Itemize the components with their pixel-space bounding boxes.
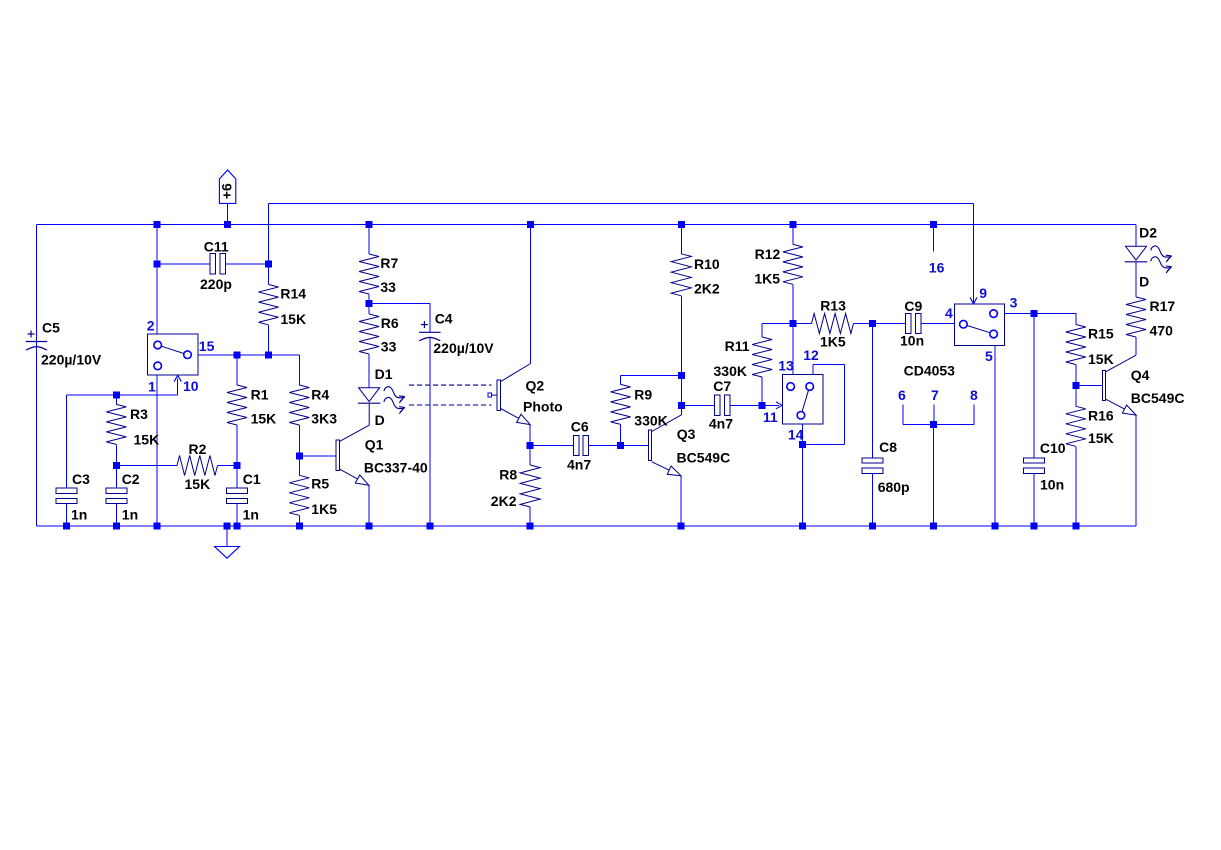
svg-text:15K: 15K	[185, 476, 211, 492]
svg-text:330K: 330K	[634, 412, 667, 428]
resistor R10 2K2	[680, 224, 682, 253]
svg-text:10n: 10n	[1040, 476, 1064, 492]
resistor R1 15K	[236, 355, 238, 385]
power symbol +6	[219, 170, 235, 203]
svg-text:220p: 220p	[200, 276, 232, 292]
wire pin10 branch horizontal	[67, 394, 178, 396]
svg-text:+6: +6	[219, 183, 235, 199]
optical coupling dashed lines	[409, 385, 492, 405]
wire Q2 emitter to R8 node	[529, 425, 531, 446]
svg-text:Photo: Photo	[523, 398, 563, 414]
svg-text:R1: R1	[251, 387, 269, 403]
junction C3 on ground bus	[63, 522, 70, 529]
svg-text:15K: 15K	[1088, 351, 1114, 367]
svg-text:R15: R15	[1088, 325, 1114, 341]
svg-text:BC337-40: BC337-40	[364, 459, 428, 475]
junction C7 right / R11 bottom	[759, 402, 766, 409]
analog switch U1a (pins 2/1/15/10)	[148, 334, 198, 375]
resistor R15 15K	[1075, 313, 1077, 324]
svg-text:330K: 330K	[714, 363, 747, 379]
svg-text:Q1: Q1	[365, 436, 384, 452]
svg-text:15K: 15K	[251, 411, 277, 427]
junction pins 6-7-8 tie	[930, 421, 937, 428]
capacitor C4 220u/10V	[419, 321, 441, 341]
junction R16 on ground bus	[1072, 522, 1079, 529]
wire C4 to ground bus	[429, 337, 431, 526]
wire Q3 emitter to ground bus	[680, 476, 682, 526]
light emission arrows from D2	[1151, 246, 1172, 262]
junction ground stem on bus	[224, 522, 231, 529]
transistor Q4 BC549C	[1076, 385, 1103, 387]
junction Q2 emitter / R8 / C6 node	[527, 442, 534, 449]
wire pin1 down to ground bus	[156, 375, 158, 526]
junction C4 on ground bus	[426, 522, 433, 529]
svg-text:D1: D1	[375, 366, 393, 382]
svg-text:2K2: 2K2	[694, 281, 720, 297]
capacitor C2 1n	[115, 466, 117, 489]
svg-text:Q4: Q4	[1131, 367, 1150, 383]
junction C7 wire on collector column	[678, 402, 685, 409]
wire pin2 into switch	[156, 264, 158, 334]
pin 16 stub	[933, 224, 935, 251]
wire pin3 row	[1004, 312, 1076, 314]
svg-text:C10: C10	[1040, 440, 1066, 456]
junction C10 on ground bus	[1031, 522, 1038, 529]
capacitor C3 1n	[66, 395, 68, 488]
svg-text:R17: R17	[1150, 298, 1176, 314]
junction R7 on top bus	[366, 221, 373, 228]
svg-text:3K3: 3K3	[311, 411, 337, 427]
wire +6 to top bus	[227, 203, 229, 224]
svg-text:1K5: 1K5	[311, 501, 337, 517]
svg-text:D: D	[1139, 273, 1149, 289]
svg-text:BC549C: BC549C	[1131, 390, 1185, 406]
wire pin12 loop to pin14 node	[812, 364, 814, 374]
svg-text:1: 1	[148, 379, 156, 395]
svg-text:1K5: 1K5	[820, 334, 846, 350]
svg-text:16: 16	[929, 260, 945, 276]
transistor Q3 BC549C	[621, 445, 649, 447]
svg-text:C6: C6	[571, 419, 589, 435]
svg-text:4n7: 4n7	[709, 416, 733, 432]
svg-text:BC549C: BC549C	[677, 449, 731, 465]
svg-text:C4: C4	[435, 311, 453, 327]
junction C6 right / R9 bottom	[617, 442, 624, 449]
resistor R7 33	[368, 224, 370, 254]
capacitor C1 1n	[236, 466, 238, 489]
svg-text:C11: C11	[204, 238, 229, 254]
resistor R11 330K	[761, 324, 763, 338]
wire mux pin2 column from bus	[156, 224, 158, 264]
junction Q3 emitter on ground bus	[677, 522, 684, 529]
junction R10 on top bus	[678, 221, 685, 228]
svg-text:R8: R8	[499, 466, 517, 482]
wire feedback drop to C11/R14 node	[268, 203, 270, 264]
svg-text:220µ/10V: 220µ/10V	[433, 340, 494, 356]
svg-text:R7: R7	[380, 255, 398, 271]
junction pin14 on ground bus	[799, 522, 806, 529]
resistor R9 330K	[620, 376, 622, 385]
light emission arrows from D1	[384, 387, 405, 403]
junction R3 bottom / C2 top	[113, 462, 120, 469]
wire Q4 collector up to R17	[1135, 337, 1137, 355]
junction R12 bottom / R13 left / pin13	[789, 320, 796, 327]
svg-text:R10: R10	[694, 256, 720, 272]
svg-text:9: 9	[979, 285, 987, 301]
wire Q3 collector up to R10	[680, 376, 682, 415]
arrow into pin 9	[970, 297, 977, 303]
svg-text:C9: C9	[904, 298, 922, 314]
junction +6 on top bus	[224, 221, 231, 228]
svg-text:R14: R14	[280, 286, 306, 302]
svg-text:R2: R2	[189, 441, 207, 457]
junction R2 right / C1 top	[234, 462, 241, 469]
junction 6-7-8 on ground bus	[930, 522, 937, 529]
svg-text:C7: C7	[713, 378, 731, 394]
svg-text:1n: 1n	[243, 506, 259, 522]
svg-text:1n: 1n	[122, 506, 138, 522]
junction pin2 column on top bus	[153, 221, 160, 228]
svg-text:33: 33	[380, 279, 396, 295]
junction pin15/R14 bottom	[265, 352, 272, 359]
svg-text:R3: R3	[130, 406, 148, 422]
junction pin3 / C10 top	[1031, 310, 1038, 317]
wire R7/R6 node to C4	[369, 302, 430, 304]
resistor R13 1K5	[793, 323, 812, 325]
wire Q1 emitter to ground bus	[368, 485, 370, 526]
svg-text:C5: C5	[42, 320, 60, 336]
junction C2 on ground bus	[113, 522, 120, 529]
wire pin13 up to R12/R13 node	[792, 324, 794, 375]
junction Q1 emitter on ground bus	[365, 522, 372, 529]
svg-text:Q3: Q3	[677, 426, 696, 442]
wire feedback vertical to pin 9	[973, 203, 975, 304]
capacitor C6 4n7	[530, 445, 573, 447]
junction C8 on ground bus	[869, 522, 876, 529]
svg-text:1K5: 1K5	[754, 271, 780, 287]
wire left bus vertical (C5 branch)	[36, 224, 38, 526]
wire Q4 emitter to ground bus	[1135, 415, 1137, 526]
svg-text:2: 2	[147, 318, 155, 334]
svg-text:R9: R9	[634, 386, 652, 402]
wire Q2 collector to top bus	[530, 224, 532, 363]
resistor R14 15K	[268, 264, 270, 285]
junction Q2 collector on top bus	[527, 221, 534, 228]
svg-text:10: 10	[183, 378, 199, 394]
junction R15 bottom / Q4 base node	[1072, 382, 1079, 389]
junction pin15/R1 top	[234, 352, 241, 359]
svg-text:5: 5	[985, 348, 993, 364]
junction C11 left	[153, 260, 160, 267]
svg-text:8: 8	[970, 387, 978, 403]
svg-text:R16: R16	[1088, 407, 1114, 423]
capacitor C11 220p	[157, 263, 210, 265]
junction pin5 on ground bus	[992, 522, 999, 529]
wire bottom ground bus	[37, 525, 1137, 527]
svg-text:33: 33	[381, 338, 397, 354]
svg-text:2K2: 2K2	[491, 493, 517, 509]
analog switch U1b (pins 13/12/11/14)	[783, 375, 823, 424]
svg-text:4: 4	[945, 305, 953, 321]
svg-text:13: 13	[778, 357, 794, 373]
svg-text:R5: R5	[311, 475, 329, 491]
svg-text:R6: R6	[381, 315, 399, 331]
svg-text:15K: 15K	[134, 431, 160, 447]
junction pin12/pin14 tie	[799, 441, 806, 448]
capacitor C10 10n	[1033, 313, 1035, 458]
svg-text:4n7: 4n7	[567, 456, 591, 472]
ground symbol	[226, 526, 228, 547]
junction R13 right / C8 / C9 node	[869, 320, 876, 327]
svg-text:6: 6	[898, 387, 906, 403]
resistor R12 1K5	[792, 224, 794, 244]
svg-text:15: 15	[199, 338, 215, 354]
svg-text:Q2: Q2	[526, 377, 545, 393]
wire top supply bus	[37, 223, 1137, 225]
svg-text:680p: 680p	[878, 479, 910, 495]
svg-text:7: 7	[931, 387, 939, 403]
capacitor C8 680p	[872, 324, 874, 459]
svg-text:R4: R4	[311, 387, 329, 403]
svg-text:R11: R11	[725, 338, 750, 354]
junction R12 on top bus	[789, 221, 796, 228]
svg-text:CD4053: CD4053	[904, 362, 956, 378]
svg-text:C1: C1	[243, 471, 261, 487]
junction C11 right / R14 top	[265, 260, 272, 267]
transistor Q1 BC337-40	[299, 455, 336, 457]
wire oscillator feedback line top	[269, 202, 974, 204]
resistor R16 15K	[1075, 386, 1077, 407]
svg-text:C3: C3	[72, 471, 90, 487]
wire with arrow into pin 11	[762, 404, 779, 406]
resistor R2 15K	[116, 465, 177, 467]
junction pin1 on ground bus	[153, 522, 160, 529]
resistor R8 2K2	[529, 446, 531, 466]
resistor R3 15K	[115, 395, 117, 404]
svg-text:C2: C2	[122, 471, 140, 487]
svg-text:D: D	[375, 412, 385, 428]
junction R7/R6/C4 node	[366, 300, 373, 307]
svg-text:1n: 1n	[71, 506, 87, 522]
junction R3 top	[113, 392, 120, 399]
junction R9/R10/Q3 collector	[678, 372, 685, 379]
wire pin15 row	[198, 354, 299, 356]
LED D1	[359, 388, 380, 402]
junction R8 on ground bus	[527, 522, 534, 529]
junction C1 on ground bus	[234, 522, 241, 529]
svg-text:C8: C8	[879, 439, 897, 455]
photo transistor Q2	[488, 393, 491, 397]
analog switch U1c (pins 9/4/3/5)	[954, 304, 1004, 346]
wire Q3 collector node to C7	[681, 404, 714, 406]
resistor R5 1K5	[298, 456, 300, 476]
wire pin14 down to ground bus	[801, 424, 803, 526]
capacitor C9 10n	[873, 323, 906, 325]
svg-text:14: 14	[788, 427, 804, 443]
LED D2	[1135, 224, 1137, 246]
svg-text:15K: 15K	[280, 311, 306, 327]
wire pins 6-7-8 bracket	[902, 404, 904, 424]
wire pins 6-7-8 to ground bus	[933, 424, 935, 526]
svg-text:10n: 10n	[900, 332, 924, 348]
svg-text:220µ/10V: 220µ/10V	[41, 351, 102, 367]
svg-text:12: 12	[803, 347, 819, 363]
svg-text:R13: R13	[820, 298, 846, 314]
junction pin16 on top bus	[930, 221, 937, 228]
resistor R6 33	[368, 303, 370, 314]
capacitor C7 4n7	[715, 395, 730, 415]
capacitor C5 220u/10V	[26, 331, 48, 351]
wire pin5 to ground bus	[994, 346, 996, 526]
svg-text:15K: 15K	[1088, 430, 1114, 446]
junction R4 bottom / Q1 base node	[296, 452, 303, 459]
svg-text:R12: R12	[755, 246, 781, 262]
resistor R17 470	[1135, 262, 1137, 297]
svg-text:3: 3	[1010, 295, 1018, 311]
svg-text:11: 11	[763, 409, 778, 425]
wire pin10 vertical with arrow into switch	[177, 379, 179, 396]
svg-text:470: 470	[1150, 322, 1174, 338]
junction R5 on ground bus	[296, 522, 303, 529]
resistor R4 3K3	[298, 355, 300, 385]
svg-text:D2: D2	[1139, 224, 1157, 240]
